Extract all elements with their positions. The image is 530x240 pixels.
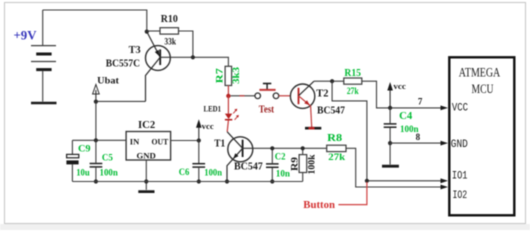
svg-text:R10: R10 <box>161 14 178 25</box>
resistor R8 <box>327 133 346 162</box>
node C2 bottom <box>270 179 274 183</box>
svg-text:7: 7 <box>418 96 423 106</box>
svg-text:3k3: 3k3 <box>232 67 242 84</box>
svg-text:R9: R9 <box>290 157 300 171</box>
resistor R9 <box>290 148 317 181</box>
transistor T1 BC547 <box>214 132 263 182</box>
battery B1 <box>31 10 56 102</box>
transistor T3 BC557C <box>106 32 171 102</box>
svg-text:C2: C2 <box>275 153 286 163</box>
svg-text:T1: T1 <box>214 139 225 150</box>
wire red node down to LED <box>227 96 229 114</box>
node T1 emitter/rail <box>225 179 229 183</box>
node pin7/C4 junction <box>388 106 392 110</box>
wire R7 bottom (red) <box>227 86 229 96</box>
capacitor C6 <box>179 141 222 182</box>
svg-text:IO1: IO1 <box>452 171 468 183</box>
wire Ubat node down to IN node <box>95 102 97 141</box>
capacitor C5 <box>90 140 118 181</box>
svg-text:10u: 10u <box>76 168 90 178</box>
svg-text:C4: C4 <box>399 111 413 122</box>
wire R8 to IO2 <box>346 148 441 187</box>
pin arrow IO1 <box>441 178 449 183</box>
wire C4 to ground <box>389 143 391 164</box>
capacitor C9 electrolytic <box>66 140 90 181</box>
svg-text:BC557C: BC557C <box>106 58 140 69</box>
ground below IC2 <box>138 190 154 193</box>
svg-text:8: 8 <box>416 132 421 142</box>
svg-text:BC547: BC547 <box>317 106 345 117</box>
node GND/rail junction <box>144 179 148 183</box>
wire T3 base to R7 <box>170 57 228 66</box>
pin arrow IO2 <box>441 185 449 190</box>
node OUT/C6/vcc junction <box>197 138 201 142</box>
pin arrow GND pin8 <box>441 141 449 146</box>
svg-text:100k: 100k <box>308 154 318 175</box>
node R10/base junction <box>191 55 195 59</box>
node IN/C5 junction <box>94 138 98 142</box>
svg-text:Button: Button <box>303 199 335 211</box>
label Button <box>303 199 335 211</box>
svg-text:10n: 10n <box>276 168 290 178</box>
wire R15 to VCC/pin7 <box>362 81 441 108</box>
svg-text:GND: GND <box>451 139 468 151</box>
wire T1 base to C2/R9/R8 node <box>253 147 327 149</box>
battery +9V label <box>14 29 37 43</box>
wire T3 collector to Ubat node <box>96 100 146 102</box>
svg-text:27k: 27k <box>328 152 345 162</box>
wire node to Test switch left contact <box>231 95 255 97</box>
svg-text:+9V: +9V <box>14 29 37 43</box>
svg-text:Test: Test <box>259 104 275 115</box>
node Ubat junction <box>94 100 98 104</box>
svg-text:LED1: LED1 <box>204 103 222 113</box>
resistor R7 <box>216 66 243 85</box>
node pin8/C4 junction <box>388 141 392 145</box>
wire switch right contact to T2 base (red) <box>279 95 291 97</box>
net label Ubat arrow <box>93 76 120 99</box>
wire Button (red) <box>338 182 367 205</box>
net label vcc at MCU <box>387 82 406 108</box>
svg-text:R8: R8 <box>327 133 342 144</box>
wire R15 node down and across to IO1 <box>332 81 441 181</box>
resistor R15 <box>344 68 362 96</box>
net label vcc at IC2 <box>196 119 214 140</box>
svg-text:100n: 100n <box>100 168 118 178</box>
pin arrow VCC pin7 <box>441 106 449 111</box>
node IO1/Button junction <box>365 179 369 183</box>
node R9 top <box>301 146 305 150</box>
svg-text:vcc: vcc <box>393 82 406 91</box>
ground T2 emitter <box>305 127 321 130</box>
battery ground bar <box>31 102 57 105</box>
node C6 bottom <box>197 179 201 183</box>
wire LED to T1 collector (red) <box>227 121 228 132</box>
svg-text:OUT: OUT <box>152 137 169 147</box>
LED D1 <box>204 103 239 119</box>
pin number 8 <box>416 132 421 142</box>
node C5 bottom <box>94 179 98 183</box>
svg-text:ATMEGA: ATMEGA <box>459 65 501 80</box>
wire IC2 GND pin <box>145 160 147 190</box>
svg-text:C6: C6 <box>179 168 190 178</box>
wire pin8 <box>390 142 441 144</box>
svg-text:T2: T2 <box>316 88 328 99</box>
MCU box ATMEGA <box>449 57 514 215</box>
svg-text:27k: 27k <box>347 86 359 96</box>
svg-text:C9: C9 <box>78 145 91 155</box>
pin number 7 <box>418 96 423 106</box>
svg-text:33k: 33k <box>164 37 176 47</box>
IC2 regulator box <box>126 120 171 161</box>
node T3 emitter junction <box>145 30 149 34</box>
svg-text:Ubat: Ubat <box>97 76 120 86</box>
switch S1 Test <box>255 84 279 116</box>
wire IN <box>72 139 126 141</box>
svg-text:vcc: vcc <box>202 122 214 131</box>
resistor R10 <box>147 14 193 58</box>
node R15 left junction <box>330 79 334 83</box>
svg-text:VCC: VCC <box>452 103 469 115</box>
wire OUT <box>171 140 199 142</box>
wire T2 collector to R15 <box>314 80 344 82</box>
capacitor C2 <box>266 148 290 181</box>
svg-text:IO2: IO2 <box>453 190 468 202</box>
capacitor C4 <box>384 108 419 143</box>
svg-text:T3: T3 <box>129 45 141 56</box>
svg-text:IC2: IC2 <box>138 120 155 131</box>
svg-text:IN: IN <box>130 136 140 146</box>
svg-text:GND: GND <box>137 150 156 160</box>
wire bottom rail <box>72 181 302 183</box>
svg-text:BC547: BC547 <box>234 162 263 173</box>
svg-text:100n: 100n <box>204 167 222 177</box>
transistor T2 BC547 <box>290 81 345 127</box>
node C2 top <box>270 146 274 150</box>
wire top rail <box>43 10 147 32</box>
svg-text:R7: R7 <box>216 68 226 83</box>
svg-text:R15: R15 <box>344 68 361 79</box>
ground below C4 <box>382 165 399 168</box>
svg-text:C5: C5 <box>102 154 113 164</box>
svg-text:MCU: MCU <box>472 81 494 96</box>
node red junction R7/LED/switch <box>226 94 230 98</box>
